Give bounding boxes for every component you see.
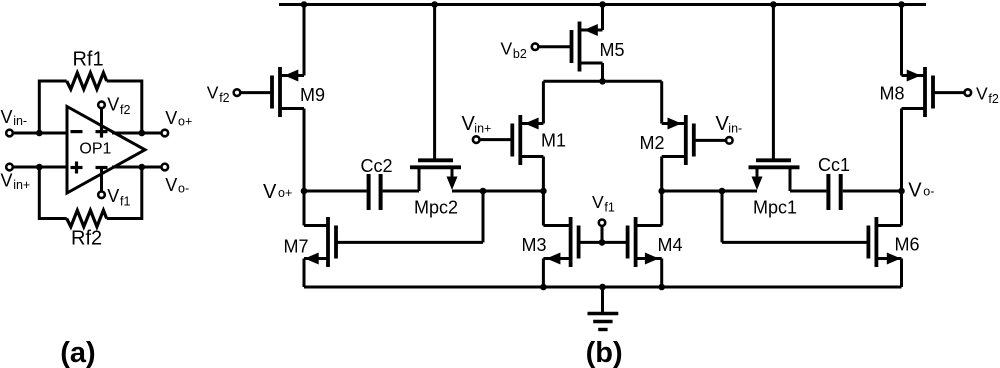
wire M1 gate (479, 138, 512, 141)
svg-text:(a): (a) (60, 337, 95, 368)
svg-text:V: V (263, 181, 277, 203)
svg-text:M4: M4 (658, 235, 683, 255)
svg-text:V: V (501, 38, 513, 58)
wire M2 drain row to Mpc1 (662, 190, 757, 193)
svg-text:V: V (908, 180, 922, 202)
op-amp minus mark top-left (71, 130, 83, 133)
wire Vin- input (12, 132, 67, 135)
wire M6 drain up (900, 191, 903, 226)
svg-text:M7: M7 (284, 237, 309, 257)
wire feedback top-right (107, 81, 142, 133)
wire M7 source down (303, 259, 306, 288)
svg-text:V: V (107, 94, 119, 114)
svg-text:o+: o+ (178, 115, 192, 129)
wire M3 M4 gates (578, 241, 627, 244)
junction dot Vo+ node (139, 130, 146, 137)
arrow M3 source (546, 253, 560, 265)
transistor M4 (634, 217, 638, 267)
svg-text:f1: f1 (604, 201, 614, 215)
mos-capacitor Mpc1 (749, 5, 800, 192)
junction dot Vin- node (36, 130, 43, 137)
wire M9 gate (240, 91, 274, 94)
svg-text:b2: b2 (513, 47, 527, 61)
arrow M4 source (645, 253, 659, 265)
resistor Rf1 (67, 73, 107, 89)
op-amp OP1 triangle (67, 107, 145, 194)
wire M4 drain up (660, 191, 663, 226)
wire M5 drain down (601, 63, 604, 81)
wire M8 source to rail (900, 5, 903, 76)
svg-text:Rf1: Rf1 (72, 49, 103, 71)
svg-text:in+: in+ (474, 122, 491, 136)
wire M5 gate (538, 45, 571, 48)
terminal Vin- (b) (726, 137, 733, 144)
svg-text:o-: o- (178, 182, 189, 196)
svg-text:in+: in+ (13, 178, 30, 192)
svg-text:in-: in- (728, 122, 742, 136)
svg-text:o-: o- (923, 185, 934, 199)
svg-text:V: V (207, 82, 219, 102)
wire M1 drain down (542, 157, 545, 192)
wire M5 source to rail (601, 5, 604, 31)
svg-text:M3: M3 (522, 235, 547, 255)
svg-text:M5: M5 (600, 40, 625, 60)
wire M2 source up (660, 81, 663, 123)
arrow M1 source (525, 118, 539, 130)
svg-text:V: V (165, 108, 177, 128)
wire node Vf1 (100, 168, 103, 192)
transistor M6 (875, 217, 879, 267)
wire feedback bottom-right (107, 167, 142, 219)
wire M6 gate (722, 241, 869, 244)
junction dot ground node (599, 284, 606, 291)
wire Cc1 to Vo- (843, 190, 902, 193)
wire M9 source to rail (303, 5, 306, 76)
svg-text:f2: f2 (219, 91, 229, 105)
wire M7 drain up (303, 191, 306, 226)
transistor M3 (569, 217, 573, 267)
wire node Vf2 (100, 108, 103, 131)
transistor M5 (578, 22, 582, 72)
svg-text:V: V (1, 171, 13, 191)
wire M1 source up (542, 81, 545, 123)
junction dot M1 M3 drains (540, 188, 547, 195)
svg-text:f2: f2 (120, 103, 130, 117)
svg-text:M1: M1 (541, 131, 566, 151)
wire VSS bottom rail (304, 286, 902, 289)
wire M8 gate (931, 91, 965, 94)
terminal Vf2 (a) (98, 102, 105, 109)
transistor M2 (684, 115, 688, 165)
mos-capacitor Mpc2 (410, 5, 461, 192)
svg-text:Cc2: Cc2 (360, 156, 392, 176)
terminal Vb2 (532, 43, 539, 50)
wire Vf1 stem (601, 227, 604, 242)
wire VDD top rail (279, 3, 926, 6)
arrow M5 source (584, 24, 598, 36)
wire M3 source down (542, 259, 545, 288)
svg-text:M9: M9 (300, 85, 325, 105)
svg-text:o+: o+ (278, 186, 292, 200)
svg-text:Cc1: Cc1 (818, 155, 850, 175)
junction dot tail node (599, 78, 606, 85)
wire Vo+ output (112, 132, 161, 135)
terminal Vf1 (a) (98, 192, 105, 199)
terminal Vf2 left (234, 89, 241, 96)
wire M6 source down (900, 259, 903, 288)
terminal Vin- (6, 130, 13, 137)
terminal Vin+ (b) (473, 136, 480, 143)
wire M8 drain to Vo- (900, 109, 903, 192)
arrow M7 source (305, 253, 319, 265)
wire Mpc1 to Cc1 (790, 190, 826, 193)
junction dot rail M5 (599, 1, 606, 8)
junction dot rail M9 (301, 1, 308, 8)
svg-text:Mpc2: Mpc2 (414, 198, 458, 218)
wire M2 drain down (660, 157, 663, 192)
svg-text:M8: M8 (880, 84, 905, 104)
junction dot M4 source (658, 284, 665, 291)
junction dot M3 source (540, 284, 547, 291)
svg-text:M2: M2 (640, 133, 665, 153)
junction dot M2 M4 drains (658, 188, 665, 195)
capacitor Cc2 (367, 174, 371, 210)
terminal Vo+ (162, 130, 169, 137)
junction dot Vo- (b) (898, 188, 905, 195)
svg-text:f1: f1 (120, 194, 130, 208)
op-amp plus mark top-right (96, 130, 108, 133)
svg-text:V: V (976, 83, 988, 103)
transistor M1 (518, 115, 522, 165)
svg-text:V: V (1, 107, 13, 127)
op-amp minus mark bottom-right (96, 166, 108, 169)
wire Vin+ input (12, 166, 67, 169)
junction dot M7 gate tap (480, 188, 487, 195)
arrow M6 source (887, 253, 901, 265)
junction dot rail Mpc2 (431, 1, 438, 8)
capacitor Cc1 (826, 174, 830, 210)
arrow M2 source (668, 118, 682, 130)
svg-text:(b): (b) (586, 337, 623, 368)
transistor M7 (326, 217, 330, 267)
wire M4 source down (660, 259, 663, 288)
terminal Vf1 (b) (599, 220, 605, 226)
transistor M9 (278, 67, 282, 117)
junction dot Vo- node (139, 164, 146, 171)
wire M9 drain to Vo+ (303, 109, 306, 192)
arrow M8 source (907, 70, 921, 82)
wire Mpc2 to M1 drain (452, 190, 543, 193)
junction dot rail Mpc1 (770, 1, 777, 8)
junction dot Vin+ node (36, 164, 43, 171)
svg-text:Mpc1: Mpc1 (753, 198, 797, 218)
svg-text:V: V (165, 175, 177, 195)
ground (588, 287, 619, 330)
terminal Vin+ (6, 164, 13, 171)
wire feedback bottom-left (39, 167, 66, 219)
junction dot rail M8 (898, 1, 905, 8)
op-amp plus mark bottom-left (71, 166, 83, 169)
resistor Rf2 (67, 210, 107, 226)
svg-text:V: V (107, 186, 119, 206)
wire M3 drain up (542, 191, 545, 226)
terminal Vf2 right (965, 89, 972, 96)
svg-text:in-: in- (13, 114, 27, 128)
wire M2 gate (694, 139, 726, 142)
wire Cc2 to Mpc2 (383, 190, 419, 193)
junction dot Vo+ (b) (301, 188, 308, 195)
svg-text:V: V (592, 192, 604, 212)
wire Vo- output (112, 166, 161, 169)
wire M7 gate (336, 241, 483, 244)
wire Vo+ row to Cc2 (304, 190, 367, 193)
junction dot M6 gate tap (719, 188, 726, 195)
terminal Vo- (162, 164, 169, 171)
svg-text:f2: f2 (988, 92, 998, 106)
svg-text:M6: M6 (895, 235, 920, 255)
wire feedback top-left (39, 81, 66, 133)
transistor M8 (923, 67, 927, 117)
junction dot Vf1 node (599, 239, 606, 246)
svg-text:Rf2: Rf2 (71, 228, 102, 250)
svg-text:OP1: OP1 (79, 140, 111, 157)
arrow M9 source (284, 70, 298, 82)
wire M5 drain node row (543, 80, 661, 83)
